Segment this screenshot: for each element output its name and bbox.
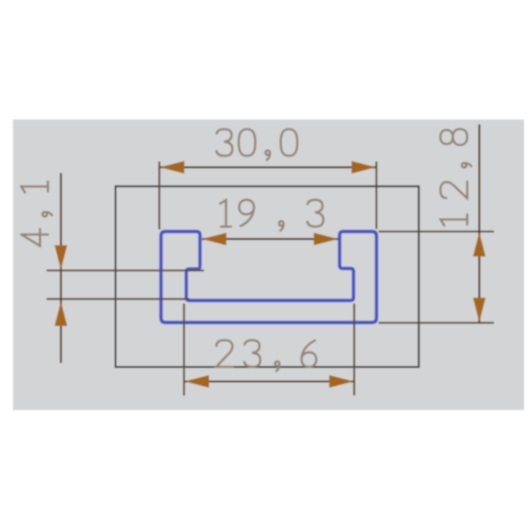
dim 12.8 : arrow up xyxy=(473,232,486,257)
dim 30.0 : extension line left xyxy=(158,162,160,230)
dim 4.1 : arrow down (above upper line) xyxy=(55,245,68,270)
dim 23.6 : extension line left xyxy=(183,304,185,396)
dim 19.3 : dimension line xyxy=(202,238,338,240)
dim 12.8 : arrow down xyxy=(473,298,486,323)
dim 23.6 : dimension line xyxy=(185,380,354,382)
dim 4.1 : arrow up (below lower line) xyxy=(55,302,68,327)
dim 23.6 : arrow left xyxy=(185,375,210,388)
dim 12.8 : text 12,8 rotated xyxy=(440,129,471,226)
dim 4.1 : text 4,1 rotated xyxy=(21,182,52,247)
dim 4.1 : extension line lower xyxy=(47,298,190,300)
drawing frame border xyxy=(116,186,419,367)
dim 30.0 : extension line right xyxy=(375,162,377,230)
dim 30.0 : arrow left xyxy=(160,161,185,174)
dim 12.8 : extension line bottom xyxy=(379,322,495,324)
dim 23.6 : extension line right xyxy=(353,304,355,396)
T-slot profile outline xyxy=(161,232,377,323)
dim 19.3 : text 19,3 xyxy=(220,200,323,231)
dim 30.0 : text 30,0 xyxy=(216,129,297,160)
dim 19.3 : arrow left xyxy=(202,233,227,246)
dim 4.1 : extension line upper xyxy=(47,269,205,271)
gray drawing panel xyxy=(13,120,524,411)
dim 12.8 : dimension line xyxy=(478,124,480,322)
dim 23.6 : text 23,6 xyxy=(216,340,316,371)
dim 23.6 : arrow right xyxy=(329,375,354,388)
dim 30.0 : arrow right xyxy=(352,161,377,174)
dim 30.0 : dimension line xyxy=(160,166,376,168)
dim 4.1 : dimension line xyxy=(60,173,62,363)
dim 19.3 : arrow right xyxy=(314,233,339,246)
dim 12.8 : extension line top xyxy=(379,231,495,233)
